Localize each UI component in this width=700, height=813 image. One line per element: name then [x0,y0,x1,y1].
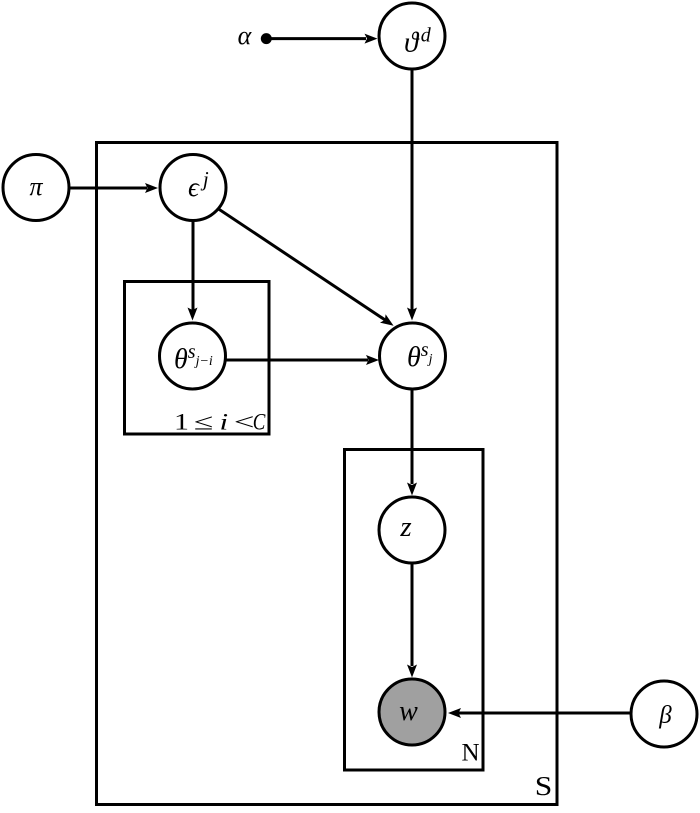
node w (observed) [379,679,445,745]
node vartheta^d [379,3,445,69]
node theta_s_j [380,323,446,389]
label plate C condition [174,409,266,435]
wire epsilon to theta_sj diagonal [200,197,385,320]
svg-text:π: π [29,172,43,201]
svg-text:≤: ≤ [194,410,214,435]
node z [379,497,445,563]
svg-text:1: 1 [174,409,189,435]
svg-text:N: N [462,740,480,767]
node theta_s_j-i [160,323,226,389]
label plate S [535,772,553,801]
arrowhead into theta_sj from epsilon [380,314,394,325]
svg-text:C: C [253,409,266,435]
arrowhead into theta_sj from vartheta [407,308,417,321]
svg-text:z: z [399,511,411,543]
wire pi to epsilon [70,187,147,190]
node pi [3,155,69,221]
wire vartheta to theta_sj [411,36,414,310]
svg-text:β: β [658,702,672,729]
label alpha [238,21,253,50]
wire epsilon to theta_sji [192,188,195,311]
node beta [631,681,697,747]
wire z to w [411,530,414,666]
node alpha dot [261,33,272,44]
svg-text:α: α [238,21,253,50]
label plate N [462,740,480,767]
wire alpha to vartheta [266,37,366,40]
svg-text:w: w [399,696,418,727]
arrowhead into w [407,665,417,678]
svg-text:<: < [234,409,255,434]
svg-text:i: i [220,409,229,434]
plate 1<=i<C [125,282,270,435]
svg-text:S: S [535,772,553,801]
plate S [97,143,558,805]
arrowhead into epsilon [145,183,158,193]
arrowhead into theta_sji [188,308,198,321]
plate N [345,450,484,771]
arrowhead into z [407,483,417,496]
arrowhead into vartheta [365,34,378,44]
wire beta to w [458,712,630,715]
wire theta_sj to z [411,356,414,484]
arrowhead into w from beta [448,708,461,718]
wire theta_sji to theta_sj [226,359,368,362]
arrowhead into theta_sj from theta_sji [366,355,379,365]
node epsilon^j [160,155,226,221]
